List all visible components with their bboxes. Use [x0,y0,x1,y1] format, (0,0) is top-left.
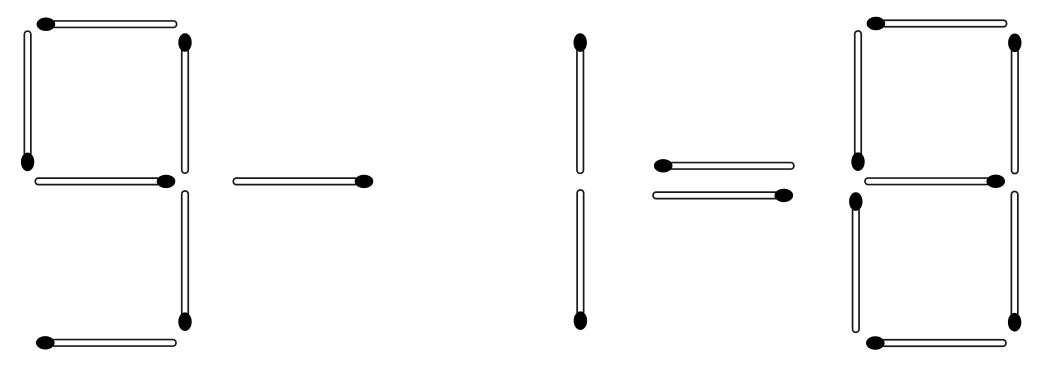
matchstick M8: digit 1, upper stick (head top) [574,33,587,173]
matchstick M5: digit 9, bottom-right segment (head bottom) [178,191,191,331]
matchstick M17: digit 8, bottom-right segment (head bottom) [1008,192,1021,332]
matchstick M4: digit 9, middle segment (head right) [35,175,175,188]
matchstick M16: digit 8, bottom-left segment (head top) [849,192,862,332]
matchstick M15: digit 8, middle segment (head right) [865,175,1005,188]
matchstick M3: digit 9, top-right segment (head top) [178,33,191,173]
matchstick M6: digit 9, bottom segment (head left) [36,336,176,349]
matchstick M18: digit 8, bottom segment (head left) [866,336,1006,349]
matchstick M14: digit 8, top-right segment (head top) [1008,34,1021,174]
matchstick M2: digit 9, top-left segment (head bottom) [21,31,34,171]
matchstick M9: digit 1, lower stick (head bottom) [574,190,587,330]
matchstick M11: equals sign, lower bar (head right) [653,189,793,202]
matchstick M12: digit 8, top segment (head left) [867,17,1007,30]
matchstick M7: minus sign (head right) [233,175,373,188]
matchstick M10: equals sign, upper bar (head left) [654,159,794,172]
matchstick M1: digit 9, top segment (head left) [37,18,177,31]
matchstick M13: digit 8, top-left segment (head bottom) [851,31,864,171]
